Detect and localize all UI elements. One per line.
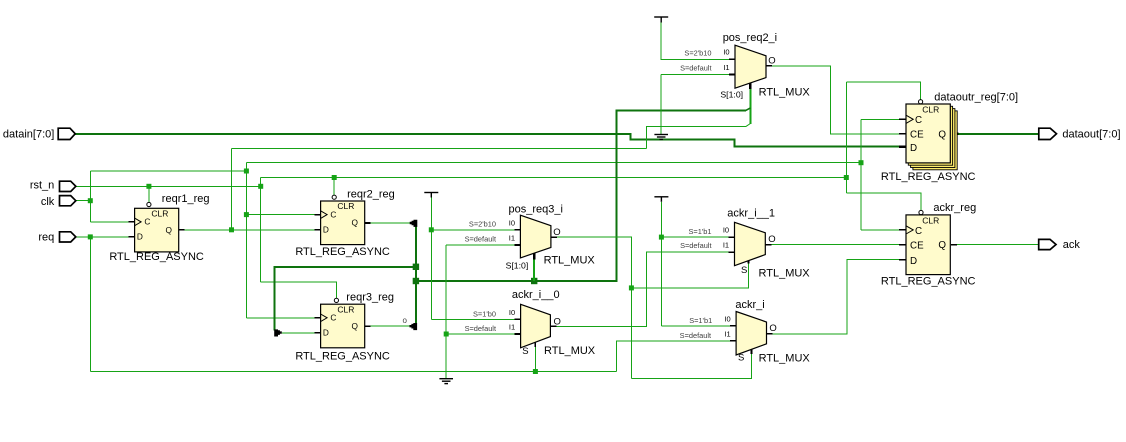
svg-text:S=default: S=default: [465, 234, 496, 243]
svg-text:ackr_reg: ackr_reg: [933, 202, 976, 214]
wire rst_n drop to reqr1 CLR: [148, 186, 150, 202]
register ackr_reg RTL_REG_ASYNC: [881, 202, 976, 287]
svg-text:I1: I1: [509, 323, 515, 332]
svg-text:CLR: CLR: [151, 208, 168, 218]
svg-text:RTL_MUX: RTL_MUX: [544, 345, 596, 357]
svg-text:D: D: [323, 328, 329, 338]
mux ackr_i__1 RTL_MUX: [680, 208, 810, 280]
svg-text:Q: Q: [938, 240, 946, 251]
svg-text:ack: ack: [1063, 239, 1081, 251]
wire req vertical x90: [89, 237, 91, 372]
register reqr2_reg RTL_REG_ASYNC: [295, 189, 394, 258]
svg-text:S=default: S=default: [680, 241, 711, 250]
wire gnd2 to pos_req3 I1: [446, 244, 520, 246]
svg-text:RTL_MUX: RTL_MUX: [759, 268, 811, 280]
wire select trunk horizontal y110: [416, 110, 746, 281]
svg-text:O: O: [768, 55, 775, 66]
wire datain bus port to dataoutr D: [75, 134, 899, 147]
wire bus rip diagonal upper: [746, 108, 751, 111]
svg-text:RTL_MUX: RTL_MUX: [759, 353, 811, 365]
register reqr3_reg RTL_REG_ASYNC: [295, 291, 394, 362]
port rst_n input: [30, 179, 76, 191]
node arrowhead bus into reqr3 D: [274, 329, 282, 336]
svg-text:I1: I1: [723, 241, 729, 250]
wire ackr_i__0 O to ackr_i__1 I1: [550, 252, 734, 326]
svg-text:D: D: [137, 232, 143, 242]
wire select bus vertical x415: [415, 227, 417, 324]
register dataoutr_reg[7:0] RTL_REG_ASYNC stacked: [881, 91, 1018, 183]
node rst_n junction at reqr1 drop: [146, 184, 151, 189]
svg-text:I1: I1: [723, 63, 729, 72]
svg-text:I0: I0: [724, 314, 730, 323]
port ack output: [1039, 239, 1081, 251]
wire rst_n to dataoutr CLR: [846, 82, 920, 100]
svg-text:S=1'b0: S=1'b0: [473, 309, 496, 318]
wire pos_req3 O to ackr_i__1 S: [631, 258, 748, 288]
wire vcc3 to ackr_i__1 I0: [661, 236, 734, 238]
svg-text:D: D: [910, 256, 917, 267]
svg-text:reqr3_reg: reqr3_reg: [346, 291, 394, 303]
node arrowhead reqr2 Q into bus: [410, 220, 418, 227]
svg-text:RTL_MUX: RTL_MUX: [759, 86, 811, 98]
svg-text:datain[7:0]: datain[7:0]: [3, 128, 54, 140]
register reqr1_reg RTL_REG_ASYNC: [109, 193, 209, 263]
svg-text:reqr1_reg: reqr1_reg: [162, 193, 210, 205]
wire reqr1 vertical x231: [231, 149, 233, 230]
mux pos_req3_i RTL_MUX: [465, 203, 596, 270]
port req input: [38, 232, 75, 244]
wire reqr3 Q to bus arrow: [365, 325, 410, 327]
svg-text:O: O: [768, 234, 775, 245]
svg-text:I0: I0: [509, 218, 515, 227]
wire vcc2 to ackr_i__0 I0: [431, 318, 520, 320]
svg-text:O: O: [553, 227, 560, 238]
mux ackr_i RTL_MUX: [680, 299, 811, 365]
svg-text:Q: Q: [166, 225, 173, 235]
svg-text:I1: I1: [724, 329, 730, 338]
node clk junction x246: [244, 169, 249, 174]
wire select bus horizontal y266: [275, 267, 416, 331]
node clk junction x861: [859, 160, 864, 165]
node rst_n junction at reqr2 drop: [332, 175, 337, 180]
wire reqr1 Q to reqr2 D: [179, 229, 321, 231]
svg-text:S[1:0]: S[1:0]: [506, 260, 529, 270]
svg-text:S=1'b1: S=1'b1: [689, 227, 712, 236]
wire rst_n from port: [76, 185, 261, 187]
node req junction at port: [88, 234, 93, 239]
node vcc3 junction at ackr_i__1 I0: [659, 235, 664, 240]
wire pos_req2 O to dataoutr CE: [766, 66, 906, 134]
wire vcc3 to ackr_i I0: [661, 325, 736, 327]
wire vcc1 to pos_req2 I0: [661, 23, 735, 60]
port clk input: [41, 196, 76, 208]
svg-text:S=2'b10: S=2'b10: [469, 219, 496, 228]
wire req riser to ackr_i I1: [617, 341, 737, 372]
svg-text:C: C: [915, 226, 922, 237]
wire pos_req3 select drop: [533, 252, 535, 282]
power vcc T3 above ackr_i__1: [654, 197, 668, 202]
wire ackr Q to ack port: [951, 244, 1039, 246]
svg-text:rst_n: rst_n: [30, 179, 54, 191]
svg-text:dataout[7:0]: dataout[7:0]: [1062, 128, 1120, 140]
wire gnd2 vertical x446: [445, 245, 447, 378]
wire clk to ackr C: [861, 229, 906, 231]
svg-text:RTL_REG_ASYNC: RTL_REG_ASYNC: [881, 171, 976, 183]
svg-text:O: O: [554, 316, 561, 327]
svg-text:dataoutr_reg[7:0]: dataoutr_reg[7:0]: [934, 91, 1018, 103]
svg-text:I0: I0: [509, 308, 515, 317]
svg-text:I0: I0: [723, 48, 729, 57]
svg-text:S[1:0]: S[1:0]: [720, 90, 743, 100]
wire clk horizontal y171: [90, 170, 246, 172]
node select trunk junction pos_req3 S: [531, 278, 537, 284]
wire vcc2 vertical x431: [430, 198, 432, 320]
node vcc2 junction at pos_req3 I0: [429, 227, 434, 232]
mux ackr_i__0 RTL_MUX: [465, 289, 596, 357]
wire clk to reqr2 C: [246, 214, 320, 216]
svg-text:pos_req3_i: pos_req3_i: [509, 203, 563, 215]
wire clk long horizontal y162: [246, 162, 861, 164]
svg-text:CLR: CLR: [337, 304, 354, 314]
node arrowhead reqr3 Q into bus: [410, 323, 418, 330]
wire pos_req2 select bus vertical: [749, 83, 751, 124]
svg-text:CLR: CLR: [922, 215, 939, 225]
wire reqr2 Q to bus arrow: [365, 222, 410, 224]
svg-text:C: C: [330, 313, 336, 323]
svg-text:Q: Q: [938, 130, 946, 141]
svg-text:CE: CE: [910, 240, 924, 251]
svg-text:RTL_REG_ASYNC: RTL_REG_ASYNC: [109, 251, 204, 263]
svg-text:Q: Q: [352, 321, 359, 331]
power vcc T2 above pos_req3: [424, 193, 438, 198]
wire gnd2 to ackr_i__0 I1: [446, 333, 520, 335]
svg-text:ackr_i: ackr_i: [735, 299, 764, 311]
svg-text:I0: I0: [723, 226, 729, 235]
wire clk vertical x246: [245, 163, 247, 318]
node clk junction at reqr2 C: [244, 212, 249, 217]
wire vcc3 vertical x661: [660, 202, 662, 326]
mux pos_req2_i RTL_MUX: [680, 32, 810, 100]
svg-text:pos_req2_i: pos_req2_i: [723, 32, 777, 44]
svg-text:req: req: [38, 232, 54, 244]
wire rst_n long horizontal y177: [261, 177, 847, 179]
svg-text:S: S: [738, 353, 744, 364]
svg-text:RTL_MUX: RTL_MUX: [544, 255, 596, 267]
svg-text:D: D: [323, 224, 329, 234]
wire ackr_i O to ackr D: [767, 260, 907, 334]
wire bus rip diagonal lower: [746, 124, 751, 127]
node select bus junction x415 y266: [413, 264, 419, 270]
wire pos_req2 I1 to ground: [661, 75, 735, 135]
svg-text:RTL_REG_ASYNC: RTL_REG_ASYNC: [881, 275, 976, 287]
svg-text:Q: Q: [352, 218, 359, 228]
wire clk vertical x90: [89, 171, 91, 222]
node select trunk junction x415 y281: [413, 278, 419, 284]
wire pos_req3 O to ackr_i S: [631, 348, 751, 378]
node reqr1 Q junction: [229, 227, 234, 232]
wire clk to reqr1 C: [90, 221, 134, 223]
wire rst_n drop to reqr2 CLR: [333, 178, 335, 196]
wire ackr_i__1 O to ackr CE: [765, 244, 906, 246]
svg-text:C: C: [330, 209, 336, 219]
node req junction at ackr_i__0 S: [533, 369, 538, 374]
wire clk to reqr3 C: [246, 317, 320, 319]
wire clk to dataoutr C: [861, 118, 906, 120]
wire clk from port: [76, 200, 91, 202]
svg-text:RTL_REG_ASYNC: RTL_REG_ASYNC: [295, 246, 390, 258]
svg-text:S=2'b10: S=2'b10: [684, 48, 711, 57]
svg-text:o: o: [403, 316, 408, 325]
svg-text:ackr_i__1: ackr_i__1: [727, 208, 775, 220]
svg-text:ackr_i__0: ackr_i__0: [512, 289, 560, 301]
node rst_n junction x846: [844, 175, 849, 180]
svg-text:S=default: S=default: [465, 324, 496, 333]
svg-text:reqr2_reg: reqr2_reg: [347, 189, 395, 201]
svg-text:S=1'b1: S=1'b1: [689, 316, 712, 325]
wire bus arrow to reqr3 D: [282, 332, 321, 334]
wire req long bottom horizontal y371: [90, 371, 616, 373]
svg-text:clk: clk: [41, 196, 55, 208]
svg-text:I1: I1: [509, 234, 515, 243]
svg-text:S: S: [522, 346, 528, 357]
ground symbol under pos_req2: [654, 135, 668, 140]
wire pos_req3 O vertical x631: [551, 237, 632, 378]
svg-text:S=default: S=default: [680, 64, 711, 73]
node clk junction at port: [88, 198, 93, 203]
wire rst_n vertical riser x260: [260, 178, 262, 283]
svg-text:C: C: [144, 217, 150, 227]
ground symbol below reqr3: [439, 379, 453, 384]
node gnd2 junction at ackr_i__0 I1: [444, 332, 449, 337]
svg-text:CLR: CLR: [922, 105, 939, 115]
svg-text:CLR: CLR: [337, 201, 354, 211]
svg-text:O: O: [769, 323, 776, 334]
label net o at reqr3 Q: [403, 316, 408, 325]
node pos_req3 O junction y287: [629, 285, 634, 290]
svg-text:D: D: [910, 143, 917, 154]
svg-text:CE: CE: [910, 130, 924, 141]
port datain[7:0] input: [3, 128, 75, 140]
svg-text:S=default: S=default: [680, 331, 711, 340]
wire vcc2 to pos_req3 I0: [431, 229, 520, 231]
wire reqr1 riser to bus rip: [646, 127, 746, 149]
port dataout[7:0] output: [1039, 128, 1121, 140]
power vcc T1 above pos_req2: [654, 17, 668, 23]
wire clk vertical x861: [860, 119, 862, 230]
svg-text:C: C: [915, 115, 922, 126]
svg-text:S: S: [741, 265, 747, 276]
wire datain D pin stub black: [899, 145, 906, 148]
node rst_n junction x260: [258, 184, 263, 189]
wire rst_n right riser x846: [845, 82, 847, 193]
wire rst_n to reqr3 CLR: [261, 282, 337, 298]
wire ackr_i__0 S drop: [534, 342, 536, 372]
wire reqr1 long horizontal y148: [232, 148, 647, 150]
wire dataout bus Q to port: [950, 133, 1039, 136]
wire req from port to reqr1 D: [76, 236, 135, 238]
svg-text:RTL_REG_ASYNC: RTL_REG_ASYNC: [295, 350, 390, 362]
wire rst_n to ackr CLR: [846, 193, 921, 210]
